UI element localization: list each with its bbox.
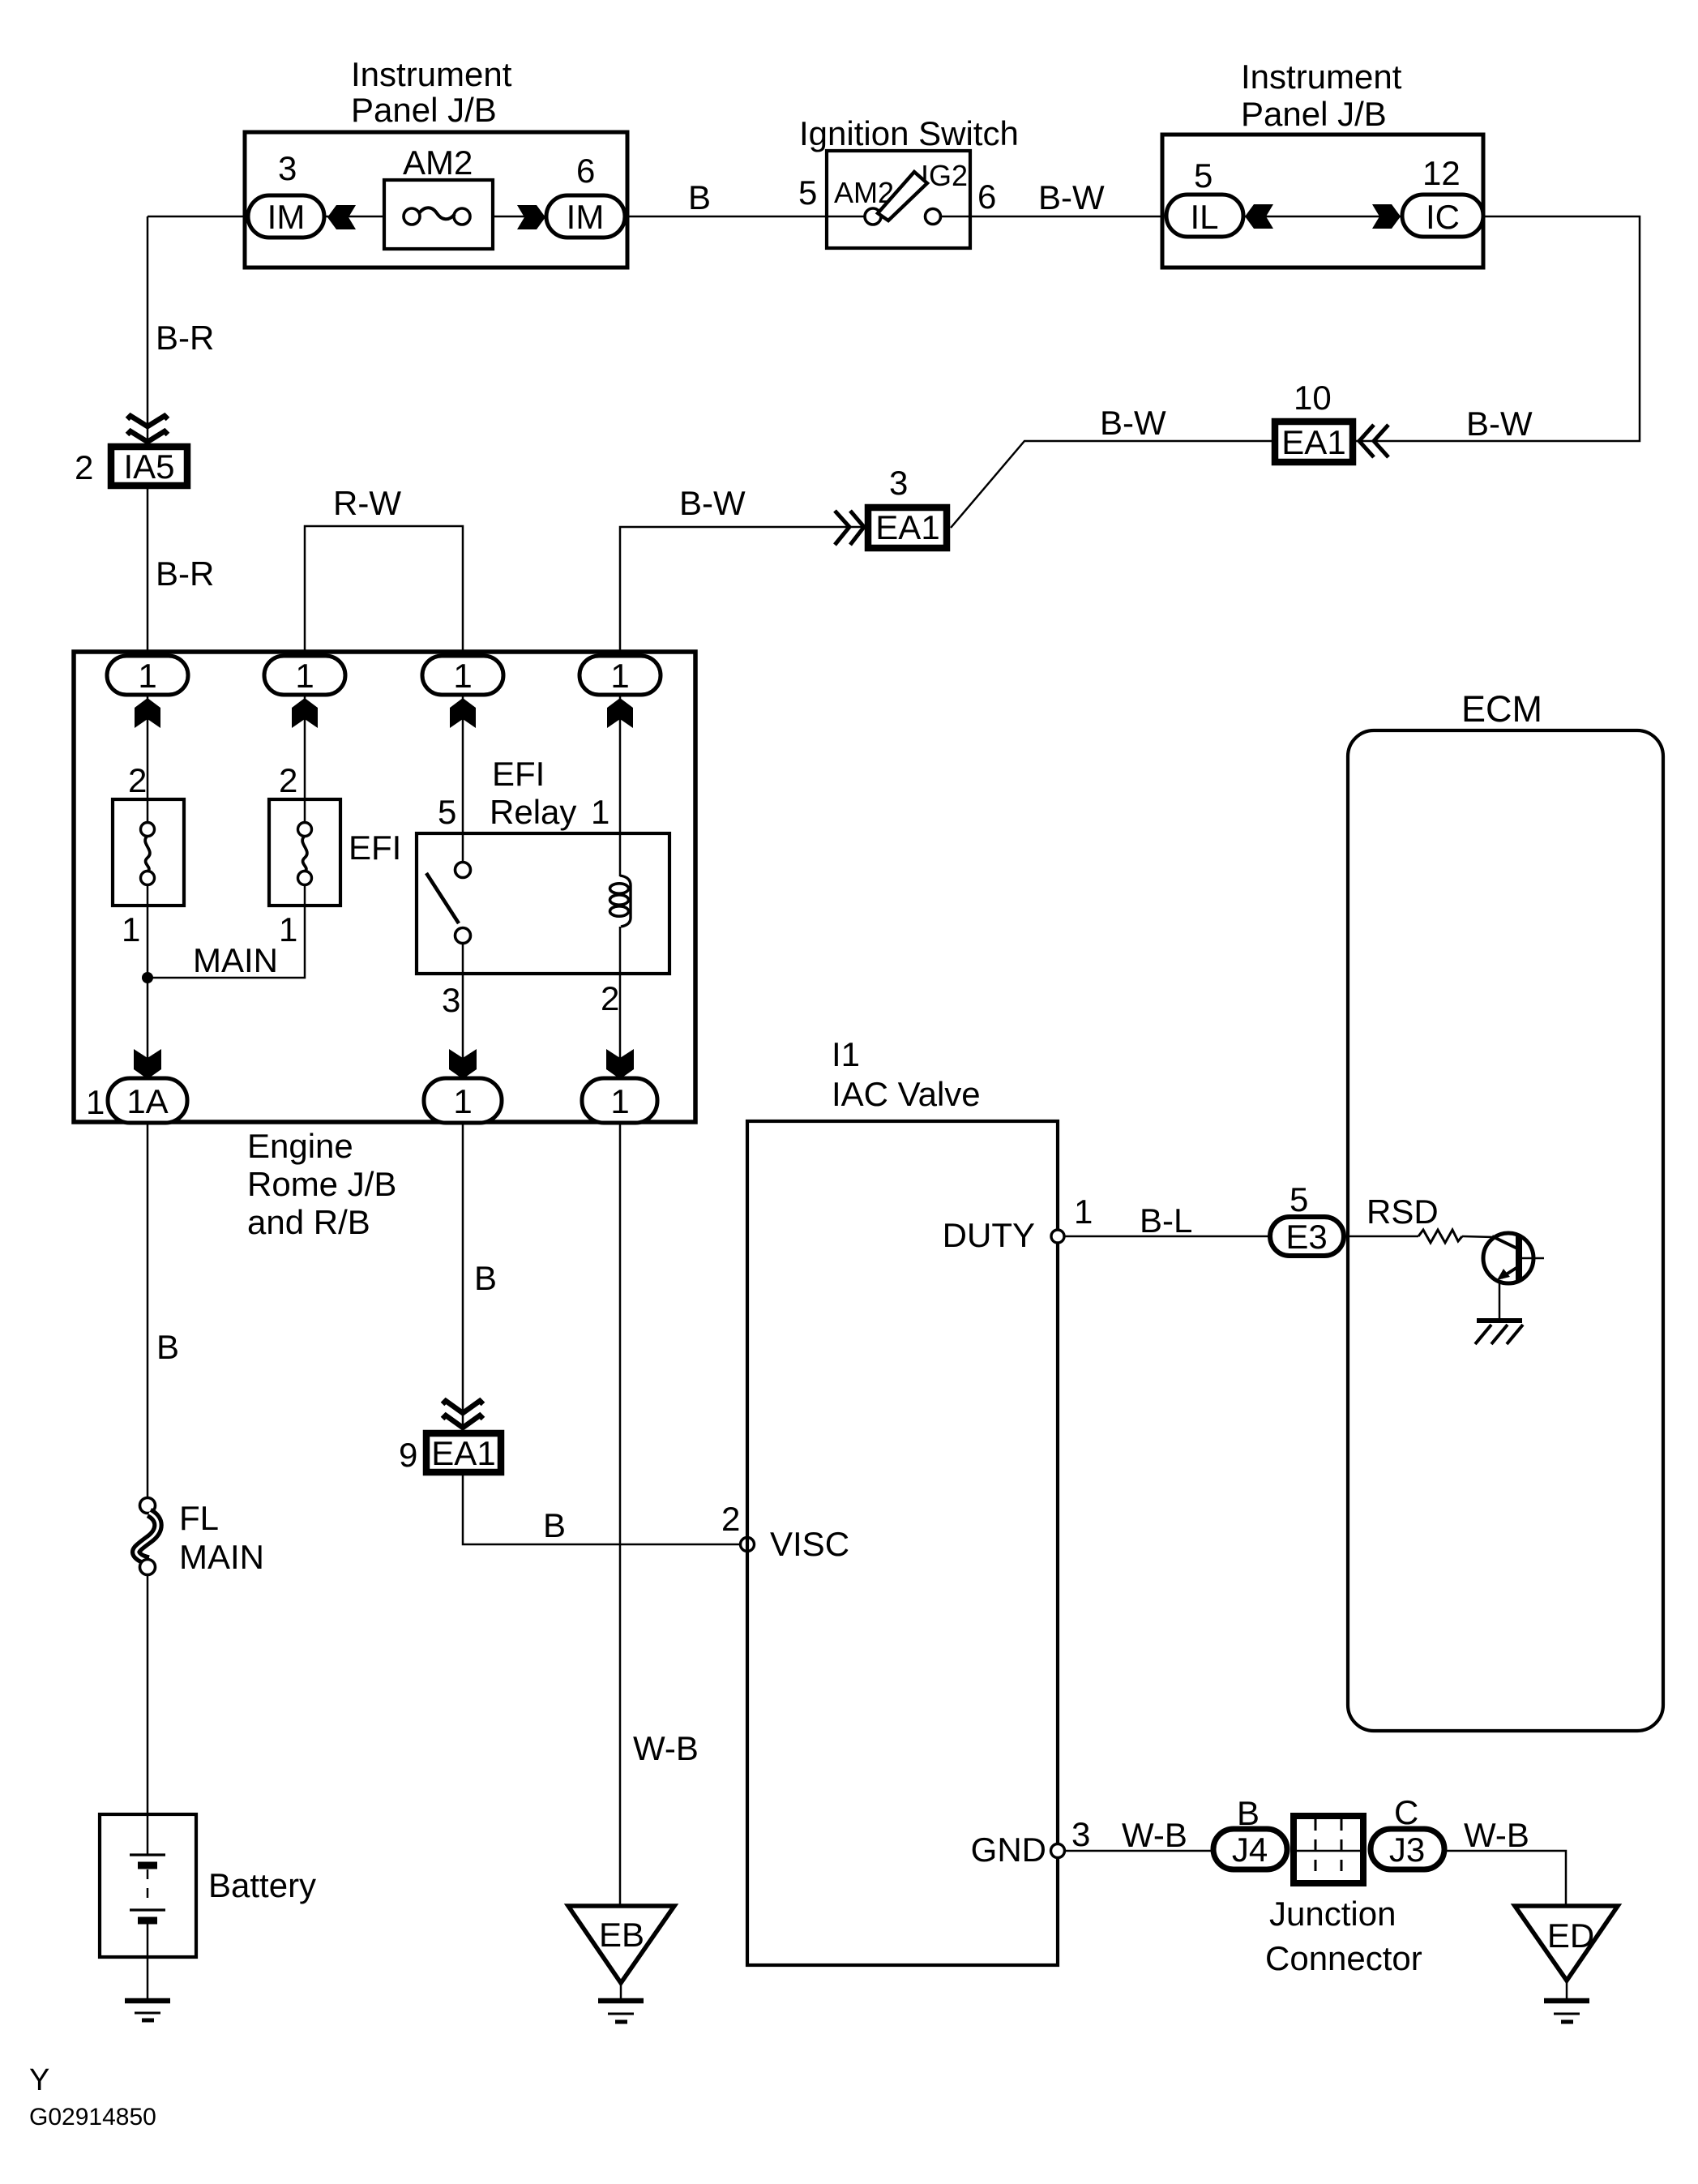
wire col1 oval to fuse MAIN	[147, 695, 149, 824]
svg-text:VISC: VISC	[770, 1525, 849, 1563]
svg-text:EA1: EA1	[431, 1434, 495, 1472]
SECTION: engine room J/B	[74, 216, 695, 1241]
harness arrow right	[517, 205, 545, 229]
harness arrow down (col 4)	[606, 1049, 634, 1079]
battery box	[100, 1814, 196, 1957]
ground connector ED triangle	[1515, 1906, 1618, 1981]
connector 1 (col 4 bottom)	[582, 1078, 657, 1123]
svg-text:and R/B: and R/B	[247, 1203, 370, 1241]
svg-text:1: 1	[453, 657, 472, 695]
svg-text:Panel J/B: Panel J/B	[1241, 95, 1387, 133]
battery cell symbol	[147, 1816, 149, 1854]
harness arrow up (col 2)	[292, 698, 318, 728]
ground (battery)	[125, 1998, 170, 2004]
svg-text:EFI: EFI	[492, 755, 545, 793]
svg-text:IG2: IG2	[921, 159, 968, 192]
wire B-W to right J/B	[970, 216, 1162, 218]
svg-text:J4: J4	[1232, 1831, 1268, 1869]
wire fuse to IM6	[493, 216, 546, 218]
wire emitter to chassis ground	[1499, 1282, 1501, 1320]
harness arrow up (col 1)	[135, 698, 160, 728]
switch contact IG2	[926, 209, 941, 225]
wire EB to ground	[620, 1983, 622, 1999]
svg-text:1: 1	[86, 1083, 105, 1121]
wire R-W bridge	[305, 526, 463, 656]
svg-text:1A: 1A	[126, 1082, 168, 1120]
svg-text:3: 3	[1071, 1815, 1090, 1853]
svg-text:1: 1	[1074, 1193, 1093, 1231]
wire IL to IC inside box	[1243, 216, 1402, 218]
svg-text:1: 1	[610, 1082, 629, 1120]
chassis ground (transistor)	[1477, 1318, 1522, 1323]
connector IM (pin 3)	[248, 195, 324, 238]
svg-text:C: C	[1394, 1793, 1418, 1831]
SECTION: IAC + ECM	[747, 688, 1663, 1965]
ground (EB)	[598, 1998, 644, 2004]
svg-text:IAC Valve: IAC Valve	[832, 1075, 981, 1113]
wire W-B from col4 oval down to EB	[619, 1123, 622, 1906]
svg-text:B: B	[474, 1259, 497, 1297]
svg-text:Engine: Engine	[247, 1127, 353, 1165]
pin VISC circle	[741, 1538, 755, 1552]
wire from EA1 10 left with diagonal to EA1 3	[951, 441, 1272, 528]
svg-text:5: 5	[1290, 1180, 1308, 1218]
svg-text:W-B: W-B	[1464, 1816, 1529, 1854]
fuse AM2 box	[384, 180, 493, 249]
wire out of switch	[940, 216, 970, 218]
connector 1 (col 1 top)	[107, 656, 188, 695]
harness arrow left	[1245, 204, 1273, 229]
harness arrow down (col 3)	[449, 1049, 477, 1079]
wire from node to connector IM 3	[148, 216, 248, 218]
engine room J/B box	[74, 652, 695, 1122]
svg-text:IL: IL	[1190, 198, 1218, 236]
svg-text:EB: EB	[599, 1916, 644, 1954]
ground (ED)	[1544, 1998, 1589, 2004]
connector 1 (col 2 top)	[264, 656, 345, 695]
svg-text:DUTY: DUTY	[943, 1216, 1035, 1254]
svg-text:5: 5	[798, 173, 817, 212]
svg-text:Instrument: Instrument	[351, 55, 512, 93]
svg-text:Relay: Relay	[490, 793, 576, 831]
svg-text:MAIN: MAIN	[179, 1538, 264, 1576]
wire E3 to resistor	[1345, 1235, 1418, 1238]
fusible link FL MAIN	[140, 1498, 156, 1514]
pin DUTY circle	[1051, 1230, 1064, 1243]
svg-text:5: 5	[438, 793, 456, 831]
svg-text:1: 1	[610, 657, 629, 695]
svg-text:IM: IM	[267, 198, 306, 236]
SECTION: footer	[29, 2063, 156, 2130]
fuse EFI box	[269, 799, 340, 906]
svg-text:RSD: RSD	[1367, 1193, 1439, 1231]
pin GND circle	[1051, 1844, 1065, 1858]
svg-text:IA5: IA5	[123, 448, 174, 486]
svg-text:B-W: B-W	[679, 484, 746, 522]
wire col2 oval to fuse EFI	[304, 695, 306, 824]
svg-text:Battery: Battery	[208, 1866, 316, 1904]
svg-text:2: 2	[601, 979, 619, 1017]
junction connector box	[1294, 1816, 1363, 1883]
svg-text:EA1: EA1	[875, 508, 939, 546]
svg-text:E3: E3	[1285, 1218, 1327, 1256]
junction block box (left Instrument Panel J/B)	[245, 132, 627, 268]
ground connector EB triangle	[568, 1906, 674, 1983]
svg-text:J3: J3	[1389, 1831, 1425, 1869]
ECM box	[1348, 730, 1663, 1731]
ignition switch box	[827, 151, 970, 248]
wire col4 oval into relay coil	[619, 695, 622, 876]
svg-text:B-W: B-W	[1466, 405, 1533, 443]
chevron into EA1 9 (pointing down)	[443, 1401, 483, 1413]
wire fuse EFI down and left to MAIN node	[148, 884, 305, 978]
harness arrow down (col 1)	[134, 1049, 161, 1079]
svg-text:5: 5	[1194, 156, 1213, 195]
SECTION: top-right Instrument Panel J/B	[1162, 58, 1640, 441]
svg-text:W-B: W-B	[633, 1729, 699, 1767]
svg-text:B-R: B-R	[156, 319, 214, 357]
wire B to ignition switch	[627, 216, 827, 218]
fuse AM2 element	[404, 208, 420, 225]
svg-text:B: B	[156, 1328, 179, 1366]
svg-text:Connector: Connector	[1265, 1939, 1422, 1977]
wire B-R from IA5 to J/B	[147, 489, 149, 656]
connector 1A	[108, 1078, 187, 1123]
connector IA5	[111, 447, 187, 486]
connector J4	[1213, 1829, 1287, 1869]
svg-text:2: 2	[279, 761, 297, 799]
svg-text:2: 2	[75, 448, 93, 486]
wire B-W from relay column to chevron	[620, 527, 865, 656]
svg-text:Ignition Switch: Ignition Switch	[799, 114, 1019, 152]
switch lever	[878, 172, 927, 221]
svg-text:Rome J/B: Rome J/B	[247, 1165, 396, 1203]
svg-text:1: 1	[453, 1082, 472, 1120]
svg-text:3: 3	[278, 149, 297, 187]
connector J3	[1371, 1829, 1444, 1869]
svg-text:W-B: W-B	[1122, 1816, 1187, 1854]
svg-text:Instrument: Instrument	[1241, 58, 1402, 96]
chevron into EA1 10 (pointing left)	[1374, 425, 1388, 457]
harness arrow right	[1372, 204, 1401, 229]
wire resistor to transistor	[1462, 1236, 1494, 1237]
svg-text:AM2: AM2	[403, 143, 473, 182]
svg-text:10: 10	[1294, 379, 1332, 417]
svg-text:1: 1	[295, 657, 314, 695]
svg-text:Y: Y	[29, 2063, 49, 2097]
wire B from 1A to FL MAIN	[147, 1123, 149, 1499]
wire FL MAIN to battery	[147, 1575, 149, 1816]
connector IL	[1166, 195, 1243, 237]
harness arrow up (col 4)	[607, 698, 633, 728]
resistor RSD	[1418, 1230, 1462, 1243]
fuse EFI element	[298, 823, 312, 837]
relay switch lever	[426, 873, 459, 923]
svg-text:B: B	[543, 1506, 566, 1544]
wire B from EA1 9 to VISC	[463, 1475, 741, 1544]
relay switch contact bottom	[456, 928, 471, 944]
wire fuse MAIN down to 1A	[147, 884, 149, 1080]
svg-text:3: 3	[889, 464, 908, 502]
IAC valve box	[747, 1121, 1058, 1965]
node MAIN junction dot	[142, 972, 153, 983]
wire IM3 to fuse	[324, 216, 384, 218]
fuse MAIN element	[141, 823, 155, 837]
svg-text:Junction: Junction	[1269, 1895, 1396, 1933]
SECTION: junction + grounds	[971, 1793, 1618, 2022]
connector EA1 (3)	[868, 507, 947, 548]
SECTION: ignition switch	[798, 114, 1162, 248]
wire B from col3 oval down	[462, 1123, 464, 1430]
svg-text:G02914850: G02914850	[29, 2104, 156, 2130]
svg-text:IC: IC	[1426, 198, 1460, 236]
svg-text:I1: I1	[832, 1035, 860, 1073]
wire ED to ground	[1566, 1981, 1568, 1999]
svg-text:6: 6	[576, 152, 595, 190]
svg-text:GND: GND	[971, 1831, 1046, 1869]
wire col3 oval into relay	[462, 695, 464, 863]
wire W-B GND to J4	[1065, 1850, 1211, 1852]
svg-text:9: 9	[399, 1436, 417, 1474]
fuse MAIN box	[113, 799, 184, 906]
svg-text:1: 1	[591, 793, 609, 831]
EFI relay box	[417, 833, 669, 974]
svg-text:IM: IM	[567, 198, 605, 236]
svg-text:ED: ED	[1547, 1916, 1594, 1955]
connector 1 (col 3 top)	[422, 656, 503, 695]
svg-text:R-W: R-W	[333, 484, 401, 522]
svg-text:2: 2	[721, 1500, 740, 1538]
svg-text:B-W: B-W	[1038, 178, 1105, 216]
SECTION: battery column	[100, 1123, 316, 2020]
svg-text:3: 3	[442, 981, 460, 1019]
svg-text:EFI: EFI	[349, 829, 401, 867]
chevron into EA1 3 (pointing right)	[835, 511, 849, 545]
svg-text:EA1: EA1	[1281, 423, 1345, 461]
SECTION: EA1 connectors mid	[305, 379, 1533, 656]
svg-text:FL: FL	[179, 1499, 219, 1537]
wire B-R down from IM3	[147, 216, 149, 443]
switch contact AM2	[865, 208, 881, 225]
svg-text:Panel J/B: Panel J/B	[351, 91, 497, 129]
wire into switch	[827, 216, 866, 218]
SECTION: middle column	[399, 1123, 849, 2022]
svg-text:6: 6	[977, 178, 996, 216]
svg-text:B-L: B-L	[1140, 1201, 1192, 1240]
wire relay pin 2 down	[619, 927, 622, 1080]
svg-text:B: B	[688, 178, 711, 216]
transistor (ECM output)	[1483, 1233, 1533, 1283]
svg-text:12: 12	[1422, 154, 1461, 192]
connector E3	[1270, 1217, 1344, 1256]
junction block box (right Instrument Panel J/B)	[1162, 135, 1483, 268]
connector EA1 (10)	[1275, 422, 1353, 462]
svg-text:MAIN: MAIN	[193, 941, 278, 979]
wire B-L DUTY to E3	[1064, 1235, 1268, 1238]
svg-text:ECM: ECM	[1461, 688, 1542, 730]
connector EA1 (9)	[426, 1433, 501, 1472]
svg-text:B-W: B-W	[1100, 404, 1166, 442]
wire relay pin 3 down	[462, 943, 464, 1080]
relay coil	[620, 876, 631, 927]
SECTION: top-left Instrument Panel J/B	[148, 55, 827, 268]
svg-text:1: 1	[138, 657, 156, 695]
harness arrow left	[327, 205, 356, 229]
relay switch contact top	[456, 863, 471, 878]
chevron into IA5 (pointing down)	[127, 416, 168, 426]
harness arrow up (col 3)	[450, 698, 476, 728]
connector 1 (col 4 top)	[580, 656, 661, 695]
svg-text:1: 1	[279, 910, 297, 949]
connector 1 (col 3 bottom)	[424, 1078, 502, 1123]
svg-text:1: 1	[122, 910, 140, 949]
svg-text:2: 2	[128, 761, 147, 799]
wire W-B J3 to ED	[1447, 1851, 1566, 1906]
wire from IC to right edge and down	[1356, 216, 1640, 441]
svg-text:B-R: B-R	[156, 555, 214, 593]
wire battery to ground	[147, 1957, 149, 1999]
connector IC	[1402, 195, 1483, 237]
connector IM (pin 6)	[546, 195, 625, 238]
